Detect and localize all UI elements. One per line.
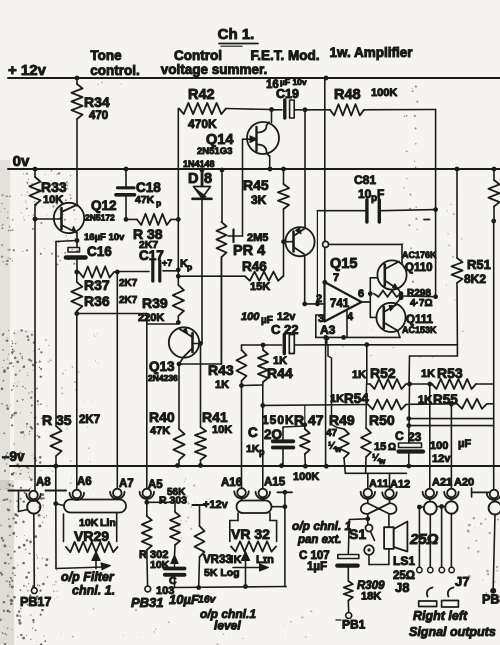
wire pin2 xyxy=(305,303,325,305)
svg-text:0v: 0v xyxy=(13,153,30,170)
svg-text:R48: R48 xyxy=(334,87,361,103)
jack base bar1 xyxy=(419,601,437,607)
terminal A11 xyxy=(361,478,389,499)
svg-text:AC176K: AC176K xyxy=(402,250,437,260)
wire A5 column xyxy=(146,314,148,489)
wire T-stub VR29 xyxy=(46,466,67,504)
resistor R298 horizontal xyxy=(374,288,432,309)
svg-text:1w. Amplifier: 1w. Amplifier xyxy=(329,45,413,60)
svg-text:Q13: Q13 xyxy=(149,359,175,374)
node C23 taps xyxy=(406,416,411,428)
svg-text:LS1: LS1 xyxy=(393,554,415,568)
svg-text:PR 4: PR 4 xyxy=(233,243,265,259)
svg-text:Q15: Q15 xyxy=(330,256,357,272)
svg-text:2: 2 xyxy=(316,293,322,305)
svg-text:16µF 10v: 16µF 10v xyxy=(84,232,125,243)
svg-text:p: p xyxy=(187,262,192,272)
wire R39 bottom left xyxy=(147,314,179,325)
svg-text:S1: S1 xyxy=(349,526,366,542)
wire feedback column xyxy=(435,110,437,297)
svg-text:voltage summer.: voltage summer. xyxy=(161,62,268,77)
node VR29 feed xyxy=(53,501,64,568)
transistor Q13 xyxy=(148,327,201,383)
wire A7 column xyxy=(116,272,118,489)
label C107 xyxy=(299,550,330,573)
svg-text:741: 741 xyxy=(330,298,350,310)
svg-text:2O: 2O xyxy=(264,427,282,442)
opamp 741 xyxy=(316,272,364,337)
wire jack col2 xyxy=(428,514,433,572)
svg-text:23: 23 xyxy=(408,430,422,444)
terminal PB17 xyxy=(20,588,51,609)
label 1N4148 xyxy=(183,159,215,169)
wire A3 column xyxy=(323,335,328,466)
svg-text:VR 32: VR 32 xyxy=(231,526,270,542)
wire A15 column xyxy=(262,385,264,490)
node R42 right xyxy=(269,107,274,112)
svg-text:R45: R45 xyxy=(243,177,269,193)
capacitor C81 xyxy=(317,173,435,222)
resistor R41 xyxy=(195,344,232,466)
svg-text:+7: +7 xyxy=(162,258,172,268)
svg-text:J8: J8 xyxy=(395,580,409,595)
node R38 right xyxy=(176,217,181,222)
label o/p Filter xyxy=(61,570,115,598)
svg-text:1K: 1K xyxy=(330,393,344,405)
svg-text:p: p xyxy=(156,198,161,208)
capacitor C17 xyxy=(117,248,192,281)
node Q15 base xyxy=(281,239,286,244)
svg-text:A3: A3 xyxy=(320,323,336,337)
node C22 left xyxy=(261,343,266,348)
capacitor C103 xyxy=(156,569,185,598)
svg-text:µF: µF xyxy=(458,438,471,450)
node Q12 base xyxy=(33,217,38,222)
svg-text:2K7: 2K7 xyxy=(119,278,138,289)
svg-text:47K: 47K xyxy=(150,425,170,437)
resistor R36 xyxy=(71,272,138,314)
svg-text:10µF: 10µF xyxy=(169,592,200,607)
svg-text:+ 12v: + 12v xyxy=(8,62,47,79)
svg-text:PB1: PB1 xyxy=(342,618,366,632)
capacitor C19 xyxy=(266,77,307,118)
svg-text:R34: R34 xyxy=(84,94,110,110)
svg-text:Right left: Right left xyxy=(413,609,468,623)
svg-text:J7: J7 xyxy=(455,574,469,589)
+12v rail xyxy=(8,62,500,79)
wire R49 feed xyxy=(327,338,344,429)
wire C81 to pin2 xyxy=(316,211,318,304)
svg-text:C: C xyxy=(395,429,404,443)
jack circle A8 xyxy=(27,500,40,514)
switch S1 xyxy=(349,525,389,565)
wire C22 left corner xyxy=(242,345,264,350)
resistor R39 xyxy=(138,285,184,324)
node R52 right xyxy=(407,382,412,387)
node R5x bottom xyxy=(491,219,496,224)
wire output xyxy=(401,294,438,299)
wire R49R50 bottom xyxy=(345,472,406,474)
svg-text:5K Log: 5K Log xyxy=(204,567,240,579)
svg-text:R55: R55 xyxy=(433,392,458,407)
pot VR29 pill xyxy=(64,497,126,512)
svg-text:Tone: Tone xyxy=(90,48,122,63)
svg-text:R37: R37 xyxy=(84,277,110,293)
node C81 right xyxy=(433,207,438,212)
transistor Q111 xyxy=(376,298,437,338)
svg-text:25Ω: 25Ω xyxy=(409,531,439,548)
wire supply to Q110 collector xyxy=(329,244,402,263)
wire A8 column xyxy=(34,219,36,491)
svg-text:R36: R36 xyxy=(84,293,110,309)
svg-text:4·7Ω: 4·7Ω xyxy=(410,298,432,309)
node rail junction opamp supply xyxy=(324,76,329,81)
svg-text:R54: R54 xyxy=(344,391,369,406)
resistor R46 horizontal xyxy=(178,242,283,293)
label o/p chnl 1 pan ext xyxy=(292,519,352,546)
node R44 bottom wire xyxy=(260,403,265,408)
resistor R49 xyxy=(326,412,355,473)
-9v junction dots xyxy=(53,463,411,469)
node R36 bottom xyxy=(74,311,79,316)
node C18 bottom xyxy=(124,217,129,222)
wire tap2 xyxy=(409,425,494,427)
label Control voltage summer xyxy=(161,48,268,77)
jack circle A20 xyxy=(445,497,457,513)
pot VR32 body xyxy=(230,513,277,542)
svg-text:220K: 220K xyxy=(138,312,164,324)
svg-text:1K: 1K xyxy=(246,443,260,455)
wire Q15 collector xyxy=(304,110,306,228)
wire R36 bottom xyxy=(77,313,147,315)
svg-text:Lɪn: Lɪn xyxy=(256,554,274,566)
svg-text:Q110: Q110 xyxy=(405,262,433,274)
svg-text:100K: 100K xyxy=(371,87,397,99)
svg-text:µF 10v: µF 10v xyxy=(280,77,307,87)
wire jack col4 xyxy=(449,514,454,573)
terminal A20 xyxy=(444,477,474,500)
pot VR32 wiper xyxy=(230,552,274,589)
jack base bar2 xyxy=(442,601,459,608)
svg-text:100: 100 xyxy=(430,440,448,452)
svg-text:PB17: PB17 xyxy=(20,595,51,609)
svg-text:18K: 18K xyxy=(361,591,381,603)
terminal A12 xyxy=(382,479,410,500)
label J7 xyxy=(455,574,469,589)
resistor R54 horizontal xyxy=(330,391,410,410)
svg-text:1N4148: 1N4148 xyxy=(183,159,215,169)
svg-text:7: 7 xyxy=(333,272,339,284)
svg-text:R33: R33 xyxy=(41,179,67,195)
wire T-stub PB17 xyxy=(9,491,30,512)
wire A3 rail xyxy=(316,335,400,341)
label R303 xyxy=(159,487,187,507)
svg-text:10K: 10K xyxy=(43,194,63,206)
bottom bus wire xyxy=(175,587,287,588)
svg-text:Ω: Ω xyxy=(388,442,396,453)
svg-text:10: 10 xyxy=(358,187,372,201)
svg-text:C81: C81 xyxy=(354,173,376,187)
wire Q14 gate to PR4 wiper xyxy=(234,139,249,236)
capacitor C23 xyxy=(395,429,471,466)
node R39 bottom xyxy=(176,320,181,325)
wire +12v stub xyxy=(192,499,228,526)
wire R303 feed xyxy=(147,502,175,512)
node rail junction R34 xyxy=(75,76,80,81)
svg-text:AC153K: AC153K xyxy=(402,325,437,335)
svg-text:16v: 16v xyxy=(198,594,217,606)
wire C23 riser xyxy=(408,356,411,443)
svg-text:PB8: PB8 xyxy=(482,593,500,607)
svg-text:12v: 12v xyxy=(432,453,451,465)
svg-text:A12: A12 xyxy=(390,479,410,491)
svg-text:o/p Filter: o/p Filter xyxy=(61,570,115,584)
wire A12 drop xyxy=(389,473,391,488)
wire R43R44 bottoms xyxy=(242,384,263,387)
node R37 right xyxy=(115,270,120,275)
node R43 bottom xyxy=(239,383,244,388)
resistor R48 horizontal xyxy=(305,87,436,115)
label F.E.T. Mod xyxy=(251,48,320,63)
svg-text:R42: R42 xyxy=(188,87,215,103)
svg-text:Control: Control xyxy=(174,48,222,63)
resistor R45 xyxy=(243,169,289,242)
transistor Q15 xyxy=(284,227,358,272)
svg-text:A16: A16 xyxy=(221,477,242,489)
jack circle right edge xyxy=(472,488,500,607)
svg-text:6: 6 xyxy=(358,288,364,300)
resistor R33 xyxy=(29,169,66,219)
svg-text:pan ext.: pan ext. xyxy=(297,534,341,546)
svg-text:1K: 1K xyxy=(215,379,229,391)
terminal A8 xyxy=(26,477,51,502)
long rail y345 xyxy=(327,342,458,347)
terminal A6 xyxy=(70,476,92,500)
label 16uF 10v xyxy=(84,232,125,243)
svg-text:level: level xyxy=(214,619,241,633)
svg-text:150K: 150K xyxy=(262,413,295,427)
svg-text:A15: A15 xyxy=(264,477,286,489)
svg-text:–9v: –9v xyxy=(2,449,25,464)
svg-text:4: 4 xyxy=(347,311,354,323)
wire C16 top to R35 xyxy=(56,241,77,427)
jack hook J8 xyxy=(427,588,433,597)
svg-text:100: 100 xyxy=(241,311,260,323)
resistor R35 xyxy=(42,412,100,466)
svg-text:D: D xyxy=(188,171,198,187)
resistor R44 xyxy=(258,345,293,385)
svg-text:A20: A20 xyxy=(454,477,474,489)
svg-text:15: 15 xyxy=(374,441,386,453)
svg-text:A21: A21 xyxy=(432,477,452,489)
capacitor C20 xyxy=(246,425,293,466)
wire jack col3 xyxy=(439,507,444,573)
svg-text:|8: |8 xyxy=(200,171,212,187)
terminal right edge xyxy=(487,490,500,500)
svg-text:2K7: 2K7 xyxy=(119,295,138,306)
svg-text:R50: R50 xyxy=(369,412,395,428)
svg-text:R41: R41 xyxy=(202,409,228,425)
node Q12 emitter xyxy=(75,233,80,243)
resistor R47 xyxy=(262,405,324,466)
svg-text:Ch 1.: Ch 1. xyxy=(218,26,255,43)
wire o/p ext column xyxy=(278,490,293,587)
svg-text:C19: C19 xyxy=(276,87,299,101)
wire R53 link xyxy=(410,382,433,387)
wire to C107 xyxy=(348,519,368,554)
resistor R51 xyxy=(451,169,490,345)
svg-text:47: 47 xyxy=(326,428,338,439)
svg-text:R53: R53 xyxy=(437,365,463,381)
wire tap1 xyxy=(409,418,494,420)
jack hook J7 xyxy=(448,588,454,597)
label 1w Amplifier xyxy=(329,45,413,60)
pot VR32 track xyxy=(231,541,276,551)
wire pill output xyxy=(272,504,288,509)
wire pin7 supply xyxy=(324,78,326,282)
wire R54 long xyxy=(263,404,368,407)
svg-text:R51: R51 xyxy=(467,257,491,272)
node C17 right xyxy=(176,267,181,278)
svg-text:1µF: 1µF xyxy=(307,561,327,573)
pot VR29 wiper xyxy=(56,552,111,570)
svg-text:R40: R40 xyxy=(149,409,175,425)
svg-text:R46: R46 xyxy=(242,259,267,274)
pot VR29 track xyxy=(66,542,118,552)
wire R51 bottom jog xyxy=(410,345,458,356)
wire R42-left column xyxy=(177,109,179,286)
svg-text:R 303: R 303 xyxy=(159,495,187,507)
capacitor C107 xyxy=(337,555,359,582)
label Tone control xyxy=(90,48,140,78)
node pin6 xyxy=(368,291,373,296)
jack circle A21 xyxy=(424,497,437,514)
label level xyxy=(200,607,256,633)
svg-text:chnl. 1.: chnl. 1. xyxy=(72,584,115,598)
wiper arrow R303 xyxy=(171,555,178,567)
terminal A5 xyxy=(140,479,164,499)
svg-text:A11: A11 xyxy=(369,478,389,490)
diode D18 xyxy=(188,170,212,344)
wire jack col1 xyxy=(417,507,422,573)
svg-text:2N5172: 2N5172 xyxy=(85,213,115,223)
svg-text:C18: C18 xyxy=(136,180,161,195)
resistor R309 xyxy=(344,580,385,613)
svg-text:Signal outputs: Signal outputs xyxy=(409,625,496,639)
opamp output xyxy=(362,278,378,318)
svg-text:C16: C16 xyxy=(87,244,112,259)
node C16 bottom xyxy=(74,270,79,275)
transistor Q110 xyxy=(377,250,437,294)
node VR33 bottom xyxy=(196,585,201,590)
resistor R50 xyxy=(361,412,396,473)
wire Q13 collector to PR4 xyxy=(179,257,221,364)
resistor R42 horizontal xyxy=(179,87,272,131)
wire A11 drop xyxy=(367,473,369,488)
svg-text:2K7: 2K7 xyxy=(79,414,100,426)
svg-text:2N4236: 2N4236 xyxy=(148,373,178,383)
svg-text:470K: 470K xyxy=(188,117,217,131)
-9v rail xyxy=(2,449,500,466)
svg-text:R 35: R 35 xyxy=(42,412,72,428)
resistor R302 xyxy=(139,516,170,586)
capacitor C18 xyxy=(116,169,161,219)
svg-text:15K: 15K xyxy=(250,281,270,293)
svg-text:R39: R39 xyxy=(142,295,168,311)
wire pin4 xyxy=(346,311,348,337)
resistor R53 horizontal xyxy=(421,365,494,389)
wire A6 column xyxy=(76,314,78,490)
svg-text:p: p xyxy=(259,447,265,457)
wire Q15 emitter to pin2 xyxy=(304,256,306,304)
resistor R55 horizontal xyxy=(410,392,494,409)
node Q13 collector xyxy=(177,357,184,367)
svg-text:2N51G3: 2N51G3 xyxy=(197,146,232,157)
0v junction dots xyxy=(33,167,497,173)
svg-text:R43: R43 xyxy=(208,362,234,378)
crossover bowtie xyxy=(361,498,397,514)
svg-text:1K: 1K xyxy=(352,369,366,381)
wire right edge column xyxy=(493,221,495,490)
svg-text:10K: 10K xyxy=(212,424,232,436)
svg-text:A8: A8 xyxy=(36,477,51,489)
0v rail xyxy=(8,153,500,170)
svg-text:o/p chnl. 1: o/p chnl. 1 xyxy=(292,519,352,533)
svg-text:47K: 47K xyxy=(135,194,155,206)
svg-text:470: 470 xyxy=(89,110,108,122)
svg-text:F.E.T. Mod.: F.E.T. Mod. xyxy=(251,48,320,63)
node R298 right xyxy=(399,291,404,300)
preset PR4 xyxy=(217,170,269,364)
title Ch 1 xyxy=(218,26,258,46)
label 25ohm big xyxy=(409,531,439,548)
svg-text:A6: A6 xyxy=(77,476,92,488)
svg-text:C: C xyxy=(248,425,258,440)
svg-text:!K: !K xyxy=(230,554,242,566)
svg-text:control.: control. xyxy=(90,63,140,78)
terminal A15 xyxy=(256,477,286,500)
wire pin3 xyxy=(316,315,325,337)
node C19 right xyxy=(303,107,308,112)
pot VR29 body xyxy=(64,513,117,545)
svg-text:8K2: 8K2 xyxy=(464,272,486,286)
node S1 top xyxy=(365,514,370,525)
svg-text:w: w xyxy=(378,457,386,466)
resistor R38 horizontal xyxy=(126,214,178,251)
terminal A21 xyxy=(423,477,453,500)
svg-text:R49: R49 xyxy=(329,412,355,428)
label right left outputs xyxy=(336,609,496,639)
resistor R43 xyxy=(208,350,247,391)
paper vignette xyxy=(0,160,36,645)
svg-text:100K: 100K xyxy=(293,471,319,483)
pot VR33 xyxy=(195,526,240,588)
terminal PB31 xyxy=(131,586,164,610)
transistor Q14 fet xyxy=(197,110,279,170)
svg-text:R44: R44 xyxy=(267,365,293,381)
wire PB17 column xyxy=(33,514,36,588)
wire R52 R50 riser xyxy=(365,345,368,428)
wire A21 column xyxy=(429,384,431,489)
jack wires xyxy=(417,504,445,509)
speaker LS1 xyxy=(384,514,415,595)
wire A20 column xyxy=(450,404,452,489)
svg-text:C17: C17 xyxy=(139,248,164,263)
wire A16 column xyxy=(241,386,243,489)
resistor R40 xyxy=(149,364,185,466)
node Q13 base xyxy=(198,341,203,346)
pot VR32 pill xyxy=(237,497,272,513)
